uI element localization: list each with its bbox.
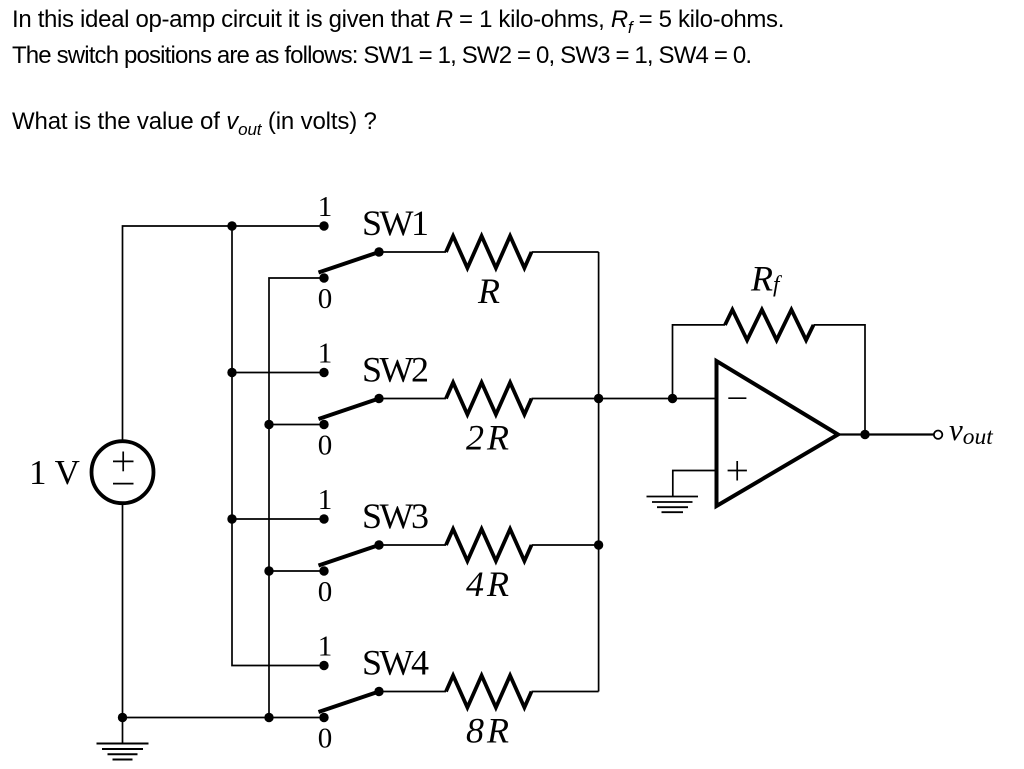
node: SW2 pole [374, 394, 383, 403]
svg-text:8R: 8R [466, 711, 512, 751]
wire feedback right [814, 325, 866, 435]
svg-text:SW3: SW3 [362, 496, 428, 536]
question line 2 [12, 42, 751, 70]
svg-text:1: 1 [318, 630, 333, 662]
wire 2R to op-amp inverting input [532, 398, 717, 400]
node: right bus row2 [594, 394, 603, 403]
node: SW4 pole [374, 687, 383, 696]
node: SW3 contact 1 [319, 514, 328, 523]
node: SW1 contact 0 [319, 273, 328, 282]
wire feedback left [673, 325, 726, 399]
ground (at op-amp plus input) [647, 497, 699, 513]
resistor 2R zigzag [446, 383, 532, 415]
wire source top to rail [123, 226, 325, 441]
voltage source V1 1V [92, 441, 154, 503]
node: SW3 contact 0 [319, 566, 328, 575]
resistor Rf zigzag [725, 310, 814, 340]
node: bus A junction row3 [227, 514, 236, 523]
wire bus B vertical [269, 278, 324, 718]
svg-text:0: 0 [318, 722, 333, 754]
node: top rail / bus A junction [227, 221, 236, 230]
wire bus A vertical [232, 226, 324, 666]
terminal vout open circle [934, 431, 942, 439]
node: SW3 pole [374, 540, 383, 549]
wire source bottom [122, 504, 124, 718]
node: bus B junction row2 [264, 420, 273, 429]
svg-text:Rf: Rf [750, 259, 783, 299]
svg-text:R: R [477, 271, 500, 311]
svg-text:1: 1 [318, 484, 333, 516]
wire R to right bus [532, 251, 599, 253]
resistor R zigzag [446, 236, 532, 268]
wire R leads [379, 251, 446, 253]
wire op-amp plus input to ground [673, 471, 717, 497]
wire ground stem left [122, 718, 124, 744]
wire 8R to right bus [532, 691, 599, 693]
svg-text:1: 1 [318, 337, 333, 369]
op-amp U1 triangle [717, 361, 839, 506]
wire bottom rail [123, 717, 325, 719]
svg-text:2R: 2R [466, 418, 512, 458]
wire right bus vertical [598, 252, 600, 692]
svg-text:vout: vout [949, 412, 993, 450]
switch SW1 arm [319, 252, 380, 273]
resistor 4R zigzag [446, 529, 532, 561]
svg-text:4R: 4R [466, 564, 512, 604]
wire SW2 terminal 0 [269, 424, 324, 426]
node: bottom rail / source junction [118, 713, 127, 722]
node: output junction [860, 430, 869, 439]
wire 8R left lead [379, 691, 446, 693]
svg-text:0: 0 [318, 576, 333, 608]
question line 3 [12, 108, 377, 140]
node: SW1 pole [374, 247, 383, 256]
wire SW2 terminal 1 [232, 372, 324, 374]
node: bus B junction row3 [264, 566, 273, 575]
node: SW2 contact 1 [319, 368, 328, 377]
svg-text:SW4: SW4 [362, 642, 429, 682]
node: SW4 contact 1 [319, 661, 328, 670]
op-amp minus sign [728, 397, 746, 399]
question line 1 [12, 6, 784, 38]
node: SW4 contact 0 [319, 713, 328, 722]
node: right bus row3 [594, 540, 603, 549]
switch SW2 arm [319, 399, 380, 420]
svg-text:SW2: SW2 [362, 349, 428, 389]
switch SW4 arm [319, 692, 380, 713]
node: bus B bottom junction [264, 713, 273, 722]
wire SW3 terminal 0 [269, 570, 324, 572]
wire SW3 terminal 1 [232, 518, 324, 520]
node: bus A junction row2 [227, 368, 236, 377]
wire 2R left lead [379, 398, 446, 400]
wire 4R to right bus [532, 544, 599, 546]
op-amp plus sign [728, 461, 747, 481]
svg-text:1 V: 1 V [29, 453, 80, 492]
switch SW3 arm [319, 545, 380, 566]
node: inverting input [668, 394, 677, 403]
svg-text:0: 0 [318, 283, 333, 315]
resistor 8R zigzag [446, 676, 532, 708]
node: SW2 contact 0 [319, 420, 328, 429]
svg-text:1: 1 [318, 191, 333, 223]
ground (left, below source) [97, 744, 149, 760]
svg-text:0: 0 [318, 429, 333, 461]
svg-text:SW1: SW1 [362, 203, 427, 243]
wire 4R left lead [379, 544, 446, 546]
node: SW1 contact 1 [319, 221, 328, 230]
